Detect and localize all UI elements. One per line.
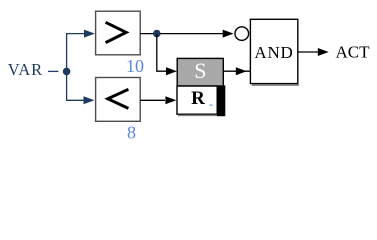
svg-text:AND: AND [254, 43, 293, 62]
comparator LT box [96, 78, 141, 122]
comparator GT box [96, 11, 141, 55]
svg-text:10: 10 [126, 56, 144, 76]
small blue tick artifact in R cell [210, 104, 213, 106]
svg-text:ACT: ACT [336, 42, 371, 61]
wire: VAR lead dash [48, 70, 58, 72]
svg-text:S: S [194, 58, 206, 83]
wire: lower branch into comparator LT input [66, 96, 94, 104]
svg-text:8: 8 [127, 123, 136, 143]
wire: GT output to AND inverted input [140, 30, 233, 38]
wire: LT output into R input [140, 96, 176, 104]
SR latch: R cell [177, 86, 217, 115]
svg-text:VAR: VAR [8, 60, 43, 79]
SR latch: black indicator bar [217, 85, 225, 116]
wire: upper branch into comparator GT input [66, 30, 95, 38]
node: VAR branch junction [63, 68, 71, 76]
wire: S output into AND lower input [223, 67, 250, 75]
inverter bubble on AND upper input [235, 27, 249, 41]
SR latch: S cell [177, 58, 223, 86]
svg-text:R: R [191, 88, 205, 109]
wire: junction down and right into S input [157, 34, 177, 76]
AND gate box [250, 19, 299, 85]
wire: vertical branch at VAR junction [66, 34, 68, 101]
node: GT output junction [153, 30, 161, 38]
wire: AND output to ACT [298, 48, 329, 56]
